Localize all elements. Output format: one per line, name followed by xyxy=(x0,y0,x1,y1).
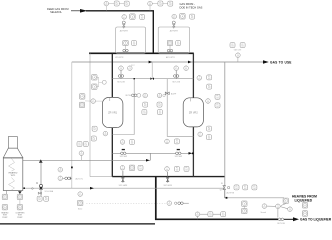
svg-text:ACTL/TL: ACTL/TL xyxy=(76,177,84,180)
svg-text:O: O xyxy=(220,190,222,192)
svg-text:VLV-IOBA: VLV-IOBA xyxy=(45,190,54,193)
svg-text:SDT-HW9: SDT-HW9 xyxy=(163,185,172,187)
svg-text:SDT/HW: SDT/HW xyxy=(175,156,183,158)
svg-text:SDT-IOB: SDT-IOB xyxy=(172,81,180,83)
svg-text:SDT/HW: SDT/HW xyxy=(120,156,128,158)
svg-text:SDT/H: SDT/H xyxy=(125,95,131,97)
svg-text:LPS WTR: LPS WTR xyxy=(115,57,124,59)
svg-text:C: C xyxy=(36,182,38,185)
svg-text:PUMP: PUMP xyxy=(17,217,23,219)
svg-text:SDT-HW8: SDT-HW8 xyxy=(119,185,128,187)
svg-text:Note:: Note: xyxy=(78,208,83,211)
svg-text:ADY WTR: ADY WTR xyxy=(166,56,175,59)
svg-text:O: O xyxy=(221,183,223,185)
svg-text:GAS USE: GAS USE xyxy=(234,49,242,52)
svg-text:PUMP: PUMP xyxy=(2,217,8,219)
svg-text:ZR VR1: ZR VR1 xyxy=(108,112,118,115)
svg-text:GAS FROM -: GAS FROM - xyxy=(180,2,196,6)
svg-text:ADYWTR: ADYWTR xyxy=(120,30,129,33)
svg-text:GAS TO USE: GAS TO USE xyxy=(270,60,292,64)
svg-text:DOE IN TECH GAS: DOE IN TECH GAS xyxy=(180,5,203,9)
svg-text:ZR VR2: ZR VR2 xyxy=(189,112,199,115)
svg-text:ADYWTR: ADYWTR xyxy=(170,30,179,33)
svg-text:SDT-IOB: SDT-IOB xyxy=(117,81,125,83)
svg-text:ACHF: ACHF xyxy=(171,92,177,95)
svg-text:HEATED: HEATED xyxy=(9,171,18,174)
svg-text:SELEXOL: SELEXOL xyxy=(50,10,62,14)
svg-text:Vessel: Vessel xyxy=(261,212,267,214)
svg-text:ACTEYN: ACTEYN xyxy=(227,192,235,195)
svg-text:SDT-IOB: SDT-IOB xyxy=(277,223,285,225)
svg-text:O: O xyxy=(32,188,34,191)
svg-text:WT1: WT1 xyxy=(11,175,16,177)
svg-text:LIQUEFIED: LIQUEFIED xyxy=(295,198,313,202)
svg-text:GAS TO LIQUEFIER: GAS TO LIQUEFIER xyxy=(300,218,332,222)
svg-text:FEED GAS FROM: FEED GAS FROM xyxy=(47,7,68,11)
